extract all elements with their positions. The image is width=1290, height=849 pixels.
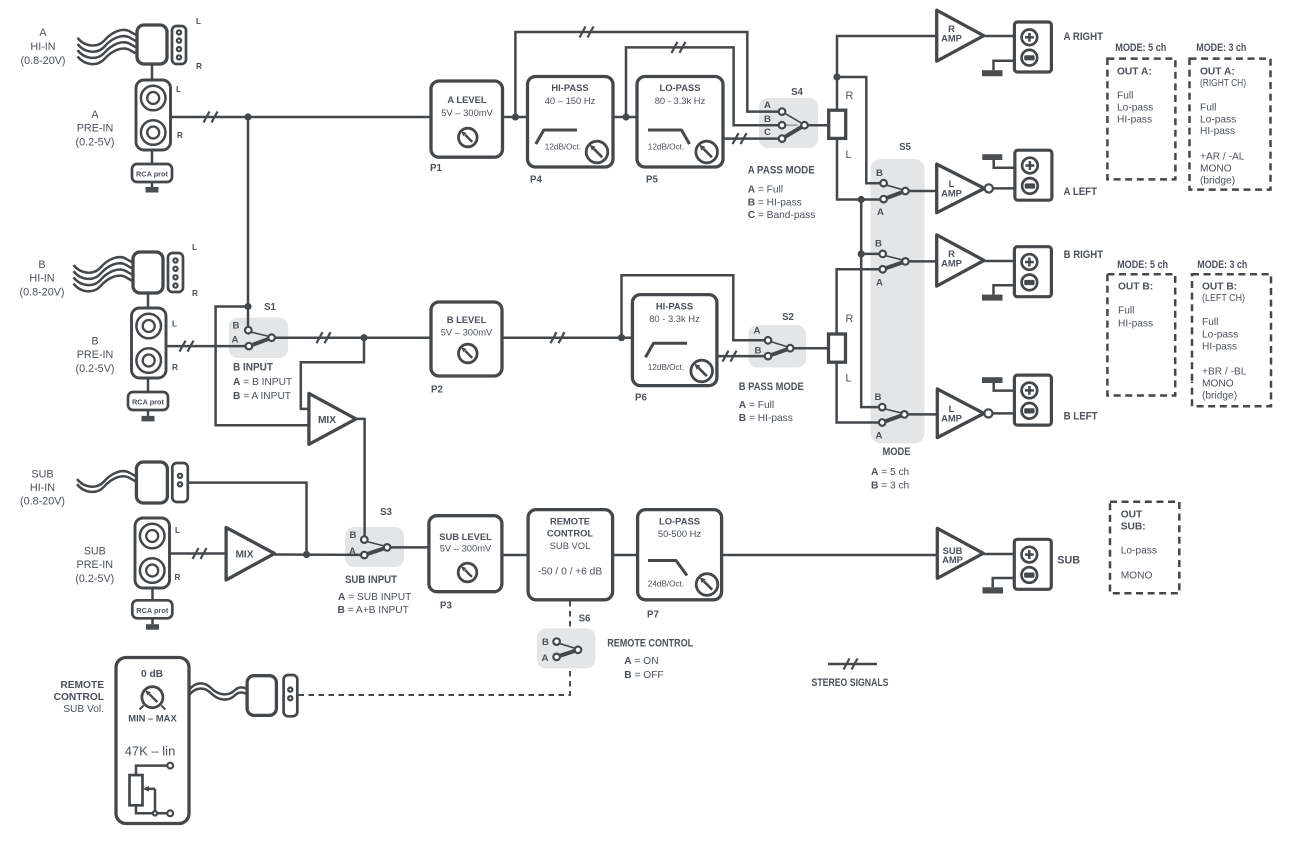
node A-L junction 2 [858,250,865,257]
svg-text:47K – lin: 47K – lin [125,744,176,759]
svg-text:AMP: AMP [941,413,962,424]
svg-text:PRE-IN: PRE-IN [77,349,114,361]
svg-text:Full: Full [1118,306,1134,317]
svg-text:CONTROL: CONTROL [54,692,104,703]
wire SUB LEVEL to REMOTE CONTROL [502,554,528,557]
svg-text:MODE: 3 ch: MODE: 3 ch [1196,42,1246,54]
svg-text:C: C [764,127,771,138]
svg-text:B: B [764,114,771,125]
svg-text:SUB VOL: SUB VOL [550,540,591,551]
svg-text:SUB:: SUB: [1121,522,1146,533]
svg-text:MONO: MONO [1202,379,1234,390]
node P2 output junction [618,334,625,341]
wire B HI-IN to B PRE-IN [147,293,150,308]
svg-text:(LEFT CH): (LEFT CH) [1202,293,1245,304]
remote control unit [116,658,189,824]
svg-text:HI-pass: HI-pass [1202,342,1237,353]
svg-text:OUT: OUT [1121,510,1143,521]
svg-text:40 – 150 Hz: 40 – 150 Hz [545,95,596,106]
svg-text:HI-IN: HI-IN [30,41,55,53]
connector SUB HI-IN cable [77,471,137,492]
svg-text:HI-pass: HI-pass [1200,126,1235,137]
svg-text:HI-PASS: HI-PASS [656,300,693,311]
svg-text:B: B [875,392,882,403]
svg-text:Lo-pass: Lo-pass [1200,115,1236,126]
svg-text:S2: S2 [782,312,794,323]
svg-text:A RIGHT: A RIGHT [1064,31,1104,43]
svg-text:B RIGHT: B RIGHT [1064,249,1104,261]
svg-text:24dB/Oct.: 24dB/Oct. [648,579,684,588]
stereo slash SUB input [193,548,207,559]
svg-text:A PASS MODE: A PASS MODE [748,164,815,176]
svg-text:B INPUT: B INPUT [233,362,273,374]
svg-text:SUB: SUB [31,468,53,480]
svg-text:AMP: AMP [942,554,963,565]
wire L AMP A to terminal [993,187,1015,190]
legend OUT SUB [1110,502,1179,594]
svg-text:B: B [875,239,882,250]
svg-text:R: R [846,313,854,325]
svg-text:A: A [876,431,883,442]
svg-text:R: R [846,90,854,102]
stereo slash bypass A [580,27,594,38]
wire SUB LO-PASS to SUB AMP [722,554,938,557]
speaker terminal A RIGHT [1014,22,1051,72]
op-amp R AMP A [937,10,984,61]
svg-text:S5: S5 [899,142,911,153]
svg-text:A: A [764,100,771,111]
svg-text:R: R [172,363,178,372]
svg-text:C = Band-pass: C = Band-pass [748,210,816,221]
svg-text:P7: P7 [647,610,659,621]
stereo slash B input [180,341,194,352]
svg-text:MONO: MONO [1121,571,1153,582]
svg-text:5V – 300mV: 5V – 300mV [440,542,492,553]
filter P7 lo-pass [638,510,722,600]
svg-text:OUT B:: OUT B: [1118,282,1153,293]
svg-text:B: B [876,168,883,179]
connector B HI-IN plug [133,252,163,293]
protection RCA prot A [132,164,172,182]
label REMOTE CONTROL S6 block [607,638,693,682]
wire S2 common to splitter [793,347,828,350]
wire S5 common to B LEFT amp [907,413,937,416]
svg-text:SUB INPUT: SUB INPUT [345,574,397,586]
svg-text:A LEFT: A LEFT [1064,186,1098,198]
op-amp L AMP B [937,389,992,438]
stereo slash P2 out [551,332,565,343]
svg-text:12dB/Oct.: 12dB/Oct. [648,363,684,372]
filter P5 lo-pass [637,77,723,168]
svg-text:SUB LEVEL: SUB LEVEL [439,531,492,542]
wire B signal to MIX upper input [301,338,364,409]
speaker terminal SUB [1014,539,1051,589]
svg-text:12dB/Oct.: 12dB/Oct. [545,142,581,151]
switch S4 [764,100,808,142]
svg-text:A = SUB INPUT: A = SUB INPUT [338,592,411,603]
svg-text:5V – 300mV: 5V – 300mV [441,107,493,118]
svg-text:S3: S3 [380,507,392,518]
node S1 junction [244,303,251,310]
wire A-L net down from splitter [837,138,881,199]
connector A HI-IN cable [78,30,138,64]
svg-text:P1: P1 [430,163,442,174]
wire A-R net up from splitter [837,36,937,110]
label A PRE-IN [75,109,114,148]
wire RCA prot A to ground [151,182,154,187]
wire B-L net down from splitter [837,362,879,422]
svg-text:R: R [196,62,202,71]
svg-text:Lo-pass: Lo-pass [1121,546,1157,557]
switch S2 [754,326,794,360]
wire A-L down to S5 sections [861,200,879,408]
svg-text:R: R [177,131,183,140]
svg-text:MIN – MAX: MIN – MAX [128,713,177,724]
svg-text:80 - 3.3k Hz: 80 - 3.3k Hz [655,95,706,106]
svg-text:B PASS MODE: B PASS MODE [739,381,804,393]
wire MIX SUB output to S3 A [275,553,362,556]
svg-text:50-500 Hz: 50-500 Hz [658,528,702,539]
svg-text:P5: P5 [646,175,658,186]
svg-text:REMOTE CONTROL: REMOTE CONTROL [607,638,693,650]
node P1 output junction [512,113,519,120]
wire S1 common to B LEVEL [274,336,431,339]
svg-text:S6: S6 [579,614,591,625]
connector A PRE-IN RCA [136,80,171,150]
wire A HI-IN to A PRE-IN [151,64,154,80]
wire A-L to S5 B-right B [861,253,879,256]
wire A input down to S1 [247,117,250,328]
svg-text:(0.2-5V): (0.2-5V) [75,573,114,585]
svg-text:(0.8-20V): (0.8-20V) [19,286,64,298]
svg-text:HI-pass: HI-pass [1117,115,1152,126]
wire REMOTE CONTROL to SUB LO-PASS [613,554,638,557]
svg-text:Full: Full [1202,317,1218,328]
wire MIX B output to S3 B [356,419,365,537]
connector B HI-IN cable [74,257,134,291]
switch S1 [232,320,275,349]
svg-text:0 dB: 0 dB [141,669,163,680]
connector B HI-IN socket [168,253,183,292]
level control P2 [431,302,502,376]
stereo slash S1 out [317,332,331,343]
speaker terminal B LEFT [1014,375,1051,425]
svg-text:A: A [877,207,884,218]
svg-text:A: A [876,278,883,289]
switch S5 section B-RIGHT [875,239,909,289]
legend stereo signals symbol [812,659,889,690]
splitter A channel [829,110,846,138]
wire SUB PRE-IN to RCA prot [151,588,154,600]
svg-text:A: A [232,335,239,346]
label MODE S5 block [871,446,911,492]
label B PASS MODE block [739,381,804,424]
speaker terminal A LEFT [1015,150,1052,200]
svg-text:REMOTE: REMOTE [60,680,104,691]
node sub input junction [303,551,310,558]
stereo slash bypass B [672,42,686,53]
mixer MIX SUB [226,528,274,581]
ground RCA prot B [142,416,155,422]
svg-text:REMOTE: REMOTE [550,515,590,526]
wire B HI-PASS to S2 B [717,355,765,358]
ground A LEFT [982,154,1015,168]
svg-text:LO-PASS: LO-PASS [659,515,700,526]
svg-text:AMP: AMP [941,33,962,44]
svg-text:CONTROL: CONTROL [547,528,594,539]
connector A HI-IN socket [172,26,186,64]
svg-text:(RIGHT CH): (RIGHT CH) [1200,78,1246,89]
wire RCA prot SUB to ground [151,618,154,624]
wire B LEVEL to B HI-PASS [502,336,632,339]
op-amp L AMP A [937,164,993,213]
svg-text:A: A [349,546,356,557]
svg-text:B: B [542,637,549,648]
svg-text:B LEVEL: B LEVEL [447,314,487,325]
svg-text:A = B INPUT: A = B INPUT [233,377,292,388]
switch S6 background [537,628,595,668]
potentiometer 47K [130,763,174,817]
connector A HI-IN plug [137,25,167,64]
stereo slash P6 out [723,351,737,362]
svg-text:L: L [176,85,181,94]
switch S5 section A-LEFT [876,168,909,218]
svg-text:+AR / -AL: +AR / -AL [1200,152,1245,163]
wire LO-PASS to S4 C [723,137,779,140]
svg-text:A = ON: A = ON [624,656,658,667]
label SUB PRE-IN [75,546,114,585]
svg-text:L: L [192,243,197,252]
svg-text:Full: Full [1200,103,1216,114]
protection RCA prot SUB [132,600,172,618]
connector SUB PRE-IN RCA [135,518,170,588]
wire hi-pass bypass to S4 B [626,47,779,125]
filter P6 hi-pass [632,295,717,386]
label SUB INPUT block [338,574,412,616]
svg-text:B = OFF: B = OFF [624,670,663,681]
svg-text:12dB/Oct.: 12dB/Oct. [648,142,684,151]
svg-text:80 - 3.3k Hz: 80 - 3.3k Hz [649,313,700,324]
level control P3 [429,516,502,592]
svg-text:B: B [38,259,45,271]
op-amp R AMP B [937,235,984,286]
svg-text:(0.2-5V): (0.2-5V) [75,136,114,148]
svg-text:A LEVEL: A LEVEL [447,94,487,105]
wire S5 common to B RIGHT amp [908,260,937,263]
svg-text:A: A [754,326,761,337]
svg-text:MODE: 5 ch: MODE: 5 ch [1117,259,1168,271]
label B PRE-IN [75,336,114,375]
op-amp SUB AMP [937,528,983,578]
svg-text:B = A INPUT: B = A INPUT [233,391,291,402]
svg-text:B = 3 ch: B = 3 ch [871,481,909,492]
svg-text:B: B [233,320,240,331]
wire A LEVEL to HI-PASS [503,116,528,119]
svg-text:L: L [846,373,852,385]
switch S6 [542,637,582,664]
svg-text:5V – 300mV: 5V – 300mV [441,326,493,337]
ground B RIGHT [982,285,1014,300]
label A PASS MODE block [748,164,816,221]
svg-text:OUT B:: OUT B: [1202,282,1237,293]
switch S3 [349,530,390,559]
svg-text:PRE-IN: PRE-IN [77,559,114,571]
node S1 output junction [360,334,367,341]
svg-text:R: R [192,289,198,298]
svg-text:(0.8-20V): (0.8-20V) [20,496,65,508]
svg-text:Lo-pass: Lo-pass [1117,103,1153,114]
svg-text:MONO: MONO [1200,164,1232,175]
wire SUB PRE-IN to MIX [170,552,227,555]
svg-text:B = A+B INPUT: B = A+B INPUT [338,605,409,616]
svg-text:HI-IN: HI-IN [30,482,55,494]
svg-text:L: L [172,320,177,329]
remote control block [528,510,613,600]
switch S3 background [345,527,404,567]
svg-text:AMP: AMP [941,188,962,199]
ground RCA prot A [146,187,159,193]
label SUB HI-IN [20,468,65,507]
svg-text:(0.2-5V): (0.2-5V) [75,363,114,375]
svg-text:B: B [350,530,357,541]
svg-text:HI-IN: HI-IN [29,273,54,285]
legend MODE 5ch OUT B [1107,259,1175,396]
svg-text:A = Full: A = Full [748,185,783,196]
wire S4 common to splitter [808,124,829,127]
svg-text:SUB Vol.: SUB Vol. [63,704,104,715]
label A HI-IN [20,27,65,67]
svg-text:MODE: MODE [883,446,911,458]
wire B PRE-IN to S1 A [167,345,247,348]
wire B-R net up from splitter [837,269,880,334]
legend MODE 5ch OUT A [1107,42,1175,179]
wire R AMP A to terminal [984,35,1015,38]
label B HI-IN [19,259,64,298]
switch S2 background [748,325,806,367]
ground A RIGHT [982,61,1014,76]
svg-text:B = HI-pass: B = HI-pass [739,413,793,424]
svg-text:B: B [755,346,762,357]
svg-text:P6: P6 [635,393,647,404]
svg-text:(bridge): (bridge) [1200,176,1235,187]
switch S5 section B-LEFT [875,392,908,442]
svg-text:L: L [846,149,852,161]
svg-text:L: L [175,526,180,535]
protection RCA prot B [128,392,168,410]
splitter B channel [829,334,846,362]
wire S3 common to SUB LEVEL [390,546,429,549]
label REMOTE CONTROL SUB Vol [54,680,105,715]
stereo slash A input [204,112,218,123]
svg-text:S1: S1 [264,302,276,313]
switch S5 background [871,159,925,443]
svg-text:OUT A:: OUT A: [1117,67,1152,78]
wire A PRE-IN to A LEVEL [171,116,432,119]
svg-text:S4: S4 [791,87,803,98]
filter P4 hi-pass [528,77,614,168]
switch S1 background [229,318,288,358]
svg-text:L: L [196,17,201,26]
svg-text:A = 5 ch: A = 5 ch [871,467,909,478]
node P4 output junction [622,113,629,120]
wire RCA prot B to ground [147,410,150,416]
svg-text:(0.8-20V): (0.8-20V) [20,55,65,67]
connector remote socket [284,675,298,716]
svg-text:Full: Full [1117,91,1133,102]
svg-text:(bridge): (bridge) [1202,391,1237,402]
ground SUB [983,578,1015,594]
svg-text:AMP: AMP [941,258,962,269]
legend MODE 3ch OUT B [1192,259,1271,406]
legend MODE 3ch OUT A [1190,42,1271,190]
ground RCA prot SUB [146,624,159,630]
svg-text:OUT A:: OUT A: [1200,67,1235,78]
svg-text:HI-pass: HI-pass [1118,319,1153,330]
svg-text:B LEFT: B LEFT [1064,410,1098,422]
svg-text:STEREO SIGNALS: STEREO SIGNALS [812,677,889,689]
wire SUB HI-IN to sub net [188,483,307,553]
level control P1 [431,81,503,157]
svg-text:P2: P2 [431,385,443,396]
svg-text:PRE-IN: PRE-IN [77,123,114,135]
wire S6 remote dashed line [297,601,570,695]
svg-text:MODE: 3 ch: MODE: 3 ch [1197,259,1247,271]
node A-R junction [833,73,840,80]
svg-text:R: R [175,573,181,582]
svg-text:LO-PASS: LO-PASS [660,82,701,93]
svg-text:P4: P4 [530,175,542,186]
svg-text:HI-PASS: HI-PASS [551,82,588,93]
svg-text:MODE: 5 ch: MODE: 5 ch [1115,42,1166,54]
svg-text:B = HI-pass: B = HI-pass [748,197,802,208]
svg-text:MIX: MIX [318,415,336,426]
node A-L junction [858,196,865,203]
connector B PRE-IN RCA [132,308,167,378]
svg-text:MIX: MIX [235,550,253,561]
stereo slash LO-PASS out [733,133,747,144]
svg-text:A: A [542,653,549,664]
wire R AMP B to terminal [984,260,1014,263]
wire B bypass to S2 A [622,275,765,340]
switch S4 background [759,98,818,148]
wire A signal to MIX lower input [216,307,309,426]
wire B PRE-IN to RCA prot [147,378,150,392]
svg-text:A: A [39,27,47,39]
speaker terminal B RIGHT [1014,247,1051,297]
mixer MIX B [309,393,356,444]
svg-text:SUB: SUB [84,546,106,558]
wire L AMP B to terminal [993,412,1015,415]
node A input junction [244,113,251,120]
svg-text:Lo-pass: Lo-pass [1202,330,1238,341]
wire bypass full-range to S4 A [515,32,779,117]
wire A PRE-IN to RCA prot [151,150,154,164]
svg-text:P3: P3 [440,601,452,612]
wire S5 common to A LEFT amp [908,190,937,193]
connector remote cable [189,683,248,699]
connector SUB HI-IN plug [136,462,167,503]
svg-text:+BR / -BL: +BR / -BL [1202,367,1247,378]
svg-text:A: A [91,109,99,121]
wire HI-PASS to LO-PASS [613,116,637,119]
ground B LEFT [982,377,1014,390]
svg-text:B: B [91,336,98,348]
wire A-R to S5 upper B [837,77,881,183]
connector SUB HI-IN socket [172,463,188,502]
connector remote plug [247,676,276,716]
label B INPUT block [233,362,292,402]
svg-text:-50 / 0 / +6 dB: -50 / 0 / +6 dB [538,567,602,578]
